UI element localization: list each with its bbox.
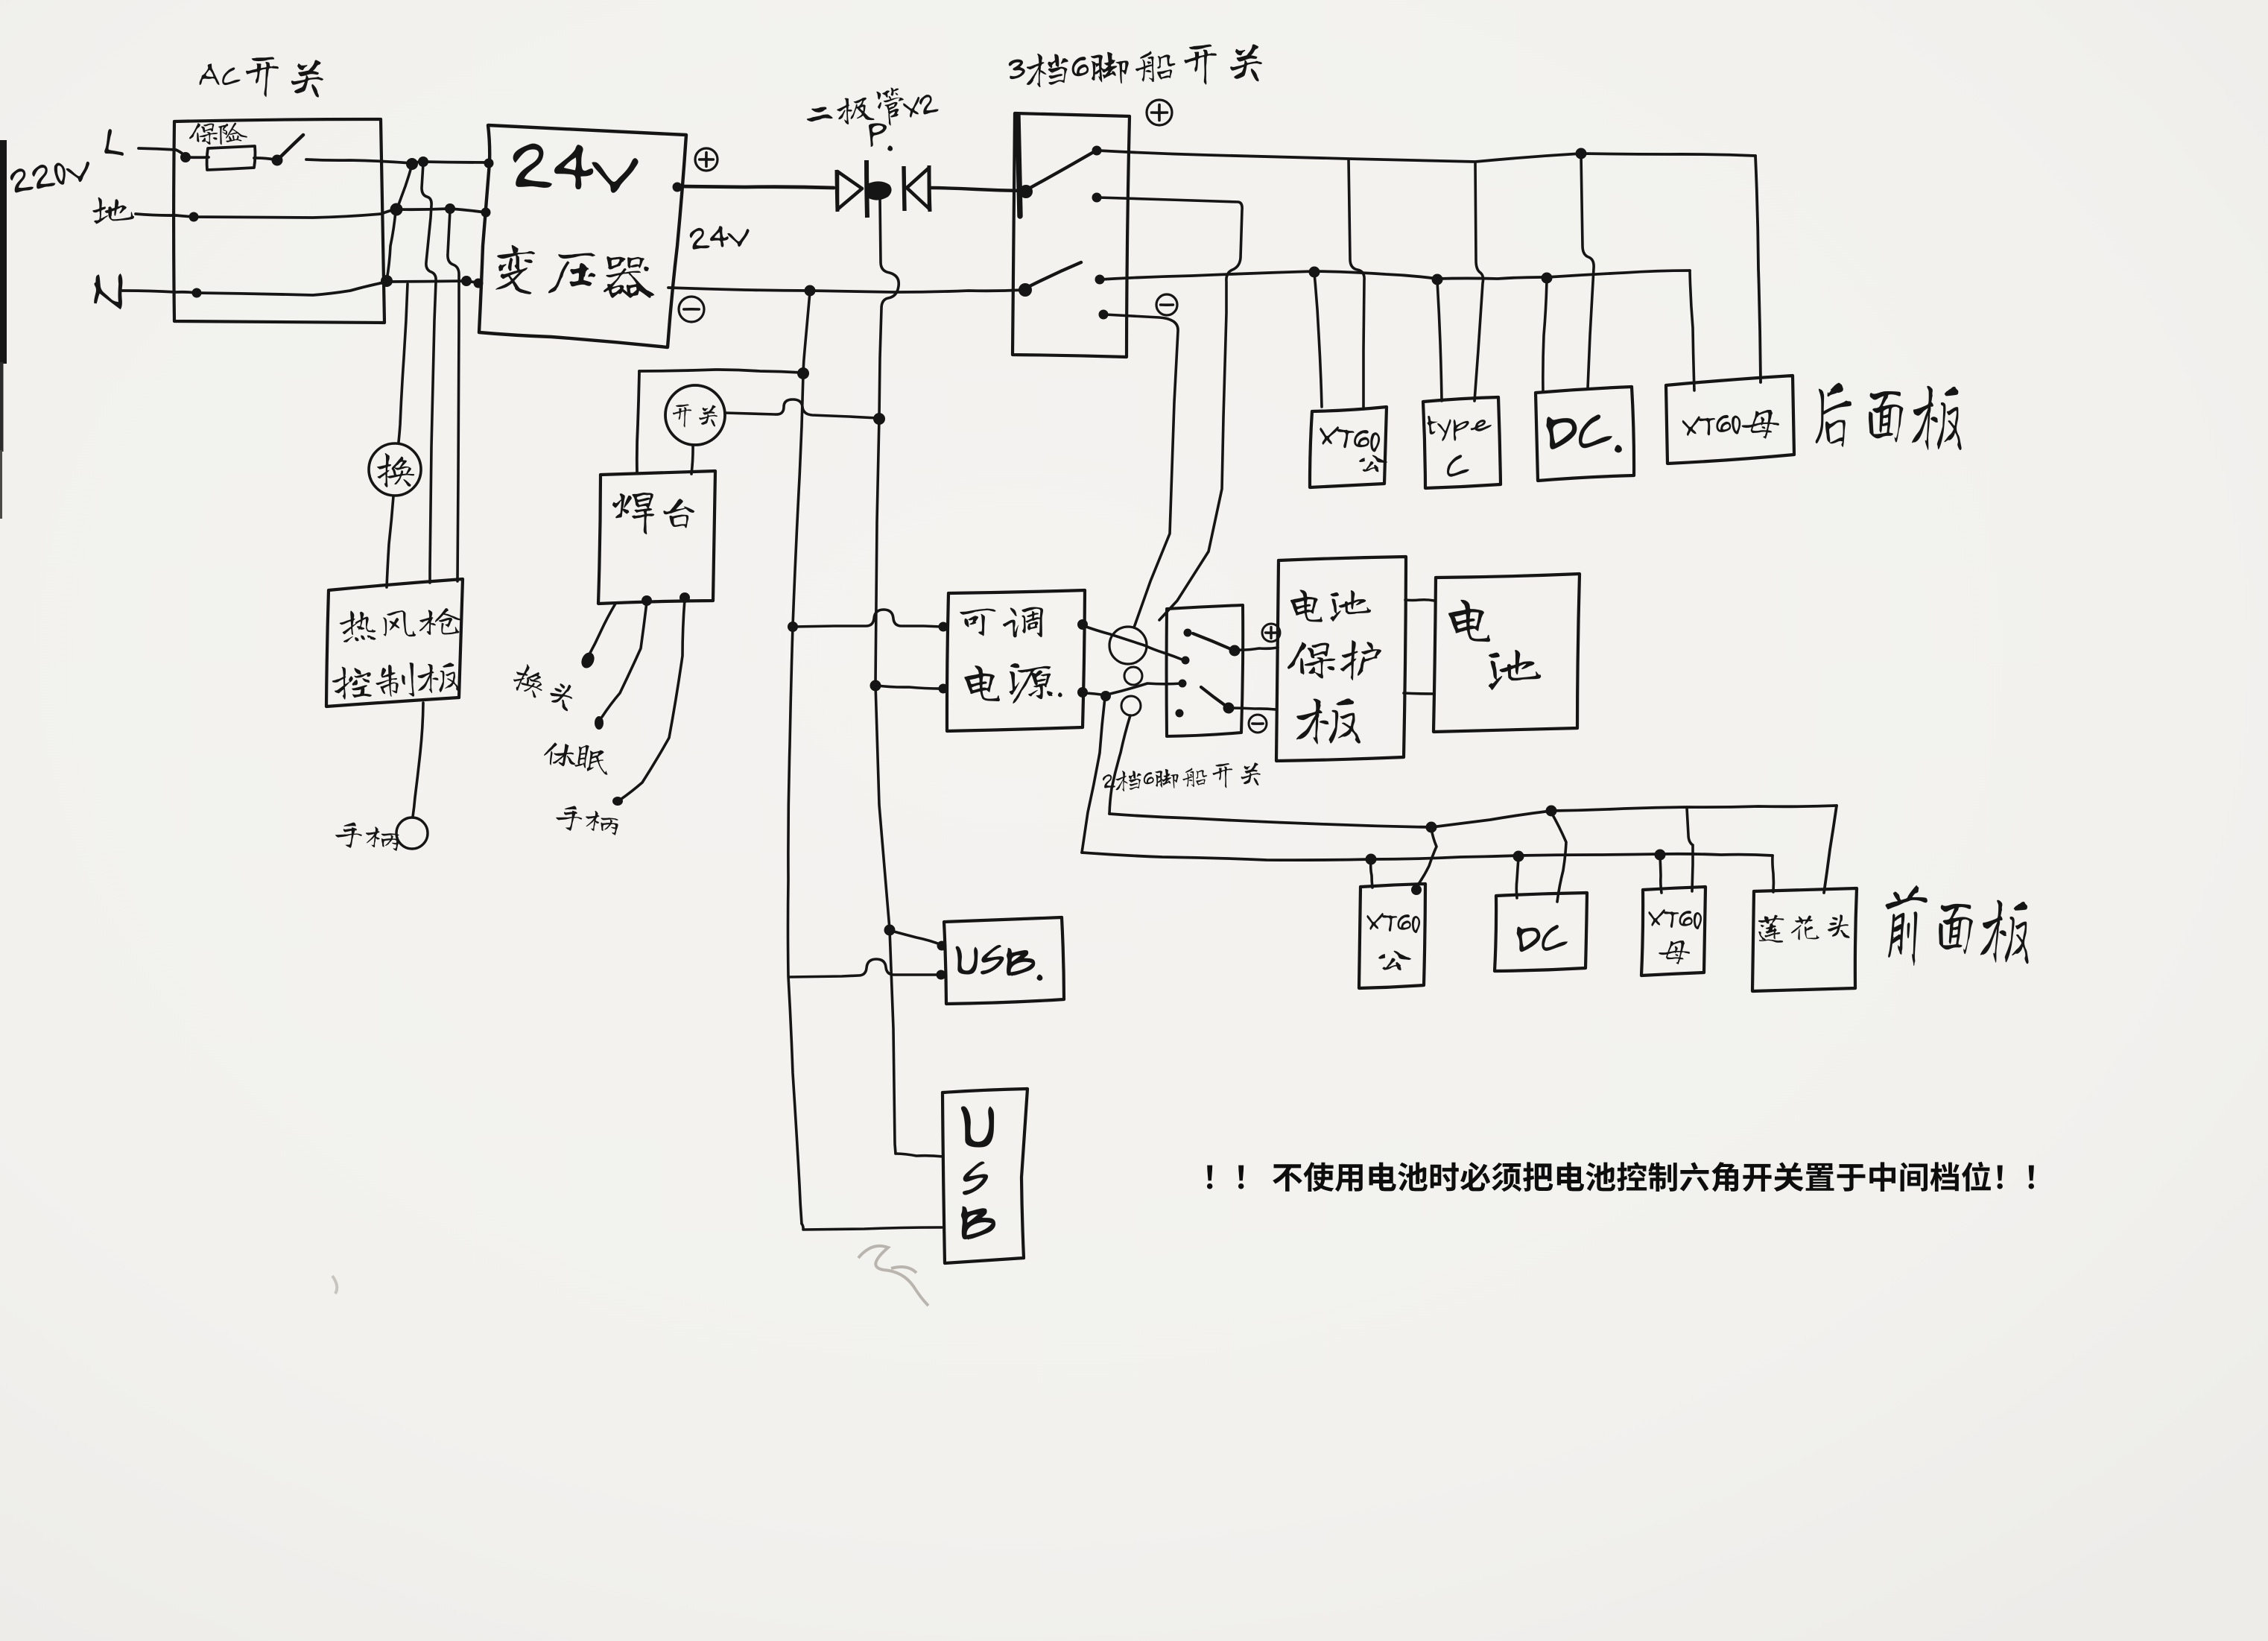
label 保护 xyxy=(1287,640,1381,680)
wire knot down to front rail A xyxy=(1109,715,1130,814)
label type xyxy=(1427,411,1492,443)
wire to tip-change connector xyxy=(589,604,615,654)
switch2 pivot dot lower xyxy=(1223,703,1235,714)
switch2 lever lower xyxy=(1201,687,1226,706)
relay circle 换 (heat-gun handle switch) xyxy=(369,443,421,496)
label C xyxy=(1447,455,1469,476)
label 板 xyxy=(1296,698,1361,744)
junction minus rail DC feed xyxy=(1542,273,1553,284)
wire branch earth junction to N junction xyxy=(387,211,396,280)
adjustable PSU box 可调电源 xyxy=(947,590,1085,731)
wire drop to rear typeC right pin (jog) xyxy=(1474,162,1483,401)
label X2 (two diodes) xyxy=(902,93,939,118)
wire rail A corner down to 莲花头 xyxy=(1824,806,1837,893)
wire transformer minus rail to rocker switch 1 xyxy=(668,288,1024,292)
connector blob 休眠 xyxy=(595,716,604,730)
junction L branch 2 xyxy=(418,156,428,167)
junction rail B at front XT60母 xyxy=(1655,850,1666,861)
wire L from switch to transformer xyxy=(306,159,489,163)
label DC. xyxy=(1546,414,1622,455)
junction rail A at front XT60公 xyxy=(1426,822,1437,833)
rear panel connector XT60母 box xyxy=(1666,376,1794,464)
junction on plus rail at DC feed xyxy=(1576,148,1587,159)
pin dot 2 xyxy=(1092,193,1102,203)
connector blob 手柄 (soldering) xyxy=(612,797,623,806)
wire rail plus to rear panel xyxy=(1098,151,1755,162)
label 池 (battery) xyxy=(1489,650,1541,690)
scanner edge artifact (black strip, left margin) xyxy=(0,140,7,519)
junction enclosure to minus vertical xyxy=(797,367,809,379)
wire minus vertical to PSU + (hop over diode-tap) xyxy=(793,610,942,627)
wire corner plus rail down to rear XT60-F xyxy=(1755,156,1761,382)
wire switch2 to protection board + xyxy=(1236,648,1278,650)
label L (line) xyxy=(104,129,127,156)
wire 地 from mains to transformer xyxy=(136,209,486,218)
label 莲花头 (RCA) xyxy=(1758,912,1849,943)
plus symbol near rocker switch 1 xyxy=(1147,100,1172,125)
label XT60母 xyxy=(1682,410,1779,442)
terminal dot L at transformer xyxy=(484,159,494,168)
pin dot front XT60公 xyxy=(1411,885,1422,895)
label DC (front) xyxy=(1516,925,1568,952)
label 24V at output xyxy=(689,224,750,250)
label B xyxy=(961,1207,995,1239)
wire circle right to diode-tap vertical (hop over minus vertical) xyxy=(725,399,878,418)
label XT60 (rear male) xyxy=(1317,424,1381,453)
handle circle 手柄 (heat gun) xyxy=(396,818,428,849)
label 后面板 (rear panel) xyxy=(1816,382,1964,452)
front panel connector XT60公 box xyxy=(1359,884,1425,988)
diode D2 (bar + reversed triangle) xyxy=(904,165,930,212)
wire rail B corner down to 莲花头 left pin xyxy=(1773,856,1774,892)
label XT60 (front) xyxy=(1366,911,1421,933)
label 220V (mains) xyxy=(9,156,92,194)
loop knot small 1 xyxy=(1124,667,1142,685)
label 控制板 xyxy=(332,660,460,701)
wire rail B stub to front DC xyxy=(1516,858,1518,898)
terminal dot 地 at transformer xyxy=(481,208,491,218)
wire corner minus rail down to rear XT60-F left pin xyxy=(1690,271,1694,391)
label 变压器 inside transformer xyxy=(495,244,657,303)
pivot dot upper xyxy=(1019,185,1033,198)
label 热风枪 xyxy=(339,605,463,642)
wire relay circle to heat-gun board xyxy=(387,496,393,587)
fuse 保险 body xyxy=(207,146,256,170)
wire diode-tap elbow into big USB top xyxy=(896,1154,943,1157)
label S xyxy=(963,1162,988,1195)
minus symbol near rocker switch 1 xyxy=(1156,294,1177,315)
wire L from mains to AC switch box xyxy=(139,148,184,155)
AC switch box xyxy=(174,119,384,323)
wire junction down to front rail B xyxy=(1082,698,1105,853)
soldering station 焊台 box xyxy=(598,471,715,604)
junction on minus rail xyxy=(805,285,816,297)
plus terminal symbol of transformer xyxy=(695,148,718,171)
wire rail A branch down to front XT60母 (jog) xyxy=(1687,808,1693,891)
label 前面板 (front panel) xyxy=(1881,883,2033,973)
junction on N wire right xyxy=(461,276,472,286)
connector blob 换头 xyxy=(579,651,597,671)
label 手柄 (soldering handle) xyxy=(554,803,620,837)
label 手柄 (heat gun handle) xyxy=(334,820,400,853)
heat-gun control board box 热风枪控制板 xyxy=(326,579,463,706)
pin dot 3 xyxy=(1095,275,1105,285)
wire fuse to switch contact xyxy=(254,158,274,159)
switch circle 开关 of soldering station xyxy=(665,385,725,445)
pivot dot lower xyxy=(1019,283,1032,297)
diode D1 (triangle + bar) xyxy=(837,160,867,218)
wire branch 地 to heat-gun board (hop over N) xyxy=(448,210,459,581)
label 24V inside transformer xyxy=(512,142,639,195)
loop knot circle (wire tangle) xyxy=(1109,627,1147,664)
wire front rail B (lower) xyxy=(1082,853,1773,860)
switch2 lever upper xyxy=(1193,633,1231,649)
label 3档6脚船开关 (rocker switch 1) xyxy=(1008,42,1263,92)
label 电池 (protection) xyxy=(1290,589,1371,622)
PSU upper-left pin dot xyxy=(939,622,948,632)
junction minus rail XT60 feed xyxy=(1309,267,1320,278)
label 母 (front) xyxy=(1659,940,1690,964)
switch2 pin dot c xyxy=(1179,680,1187,688)
junction 地 entry xyxy=(189,212,199,222)
wire rail B stub to front XT60母 xyxy=(1660,856,1662,893)
junction blob between diodes xyxy=(866,181,892,200)
junction on N wire xyxy=(381,275,393,287)
front panel connector DC box xyxy=(1495,893,1587,971)
junction N entry xyxy=(192,288,202,298)
wire protection to battery upper xyxy=(1405,600,1434,601)
faint pencil scribble under USB box xyxy=(332,1246,928,1306)
USB charge board box xyxy=(944,917,1064,1004)
pin dot soldering station output 1 xyxy=(642,595,652,606)
wire rail minus to rear panel xyxy=(1100,271,1690,279)
wire protection to battery lower xyxy=(1404,693,1434,694)
label 地 (earth) xyxy=(92,197,134,224)
wire to sleep connector xyxy=(602,602,647,717)
junction L branch xyxy=(406,158,418,170)
lever upper xyxy=(1027,153,1092,189)
label 休眠 xyxy=(542,739,611,774)
pin dot USB upper xyxy=(937,941,947,951)
wire to handle connector xyxy=(621,599,685,799)
wire rail A wavy drop to front DC pin xyxy=(1551,812,1566,902)
wire enclosure left edge xyxy=(637,371,639,472)
wire enclosure top of soldering-station switch xyxy=(639,370,802,373)
pin dot 1 xyxy=(1092,146,1102,156)
wire junction up-right to switch2 pin3 xyxy=(1107,683,1182,695)
wire diodes to rocker switch 1 xyxy=(931,188,1022,191)
junction diode-tap at PSU feed xyxy=(870,680,881,692)
label AC开关 (AC switch title) xyxy=(199,54,324,99)
rear panel connector type-C box xyxy=(1423,397,1501,488)
wire stub to rear XT60-M left pin xyxy=(1314,273,1322,407)
PSU lower-left pin dot xyxy=(939,684,948,694)
junction rail B at front XT60公 xyxy=(1366,854,1377,865)
PSU lower-right pin dot xyxy=(1077,687,1088,698)
label USB. xyxy=(954,943,1043,981)
wire diode-tap to USB box upper pin xyxy=(891,931,942,945)
switch2 pin dot d xyxy=(1176,709,1184,718)
switch2 pin dot b xyxy=(1182,657,1190,665)
wire heat-gun board to handle xyxy=(413,703,423,817)
junction rail B at front DC xyxy=(1513,851,1524,862)
switch2 pivot dot upper xyxy=(1229,645,1241,657)
wire diode-tap to PSU lower pin xyxy=(877,686,943,689)
front panel connector XT60母 box xyxy=(1641,887,1705,976)
wire stub to rear DC left pin xyxy=(1543,279,1547,392)
wire diode-tap vertical (hop over minus rail) xyxy=(875,198,899,1154)
label U xyxy=(961,1106,994,1147)
label 2档6脚船开关 (rocker switch 2) xyxy=(1102,762,1261,794)
squiggle under 器 xyxy=(612,289,650,297)
wire PSU minus to junction and up to switch2 pin xyxy=(1084,693,1106,695)
PSU upper-right pin dot xyxy=(1077,619,1088,630)
wire switch2 to protection board - xyxy=(1230,708,1276,709)
rear panel connector DC box xyxy=(1536,387,1634,481)
label 公 (front) xyxy=(1378,951,1411,970)
minus terminal symbol of transformer xyxy=(679,297,704,322)
label 换头 xyxy=(510,661,578,712)
rocker switch 1 heavy left edge stroke xyxy=(1018,116,1020,216)
label 保险 (fuse) xyxy=(189,123,247,145)
wire transformer plus to diodes xyxy=(677,186,834,188)
label 公 (rear male) xyxy=(1359,455,1387,472)
label 可调 xyxy=(960,607,1043,638)
label 电 (battery) xyxy=(1448,600,1490,642)
label 开关 in circle xyxy=(673,404,718,427)
junction rail A at front DC xyxy=(1546,806,1557,817)
label XT60 (front 2) xyxy=(1647,908,1702,929)
wire front rail A (upper) xyxy=(1109,806,1837,827)
lever lower xyxy=(1027,262,1081,288)
terminal dot N at transformer xyxy=(474,279,484,288)
rocker switch 2 box xyxy=(1167,605,1244,736)
wire circle to soldering station box xyxy=(691,445,693,474)
junction diode-tap at USB feed xyxy=(884,925,896,936)
junction on 地 wire xyxy=(390,203,403,216)
wire pin2 to battery funnel (right) xyxy=(1098,197,1242,620)
battery box 电池 xyxy=(1434,574,1580,732)
warning note text xyxy=(1207,1162,2034,1192)
wire branch to heat-gun relay (via crossing hops) xyxy=(422,163,436,583)
terminal dot at transformer plus xyxy=(673,183,682,192)
rocker switch 1 box xyxy=(1013,113,1130,357)
minus symbol at switch2 xyxy=(1249,715,1267,733)
junction L at fuse input xyxy=(180,152,191,162)
wire stub to rear typeC left pin xyxy=(1437,281,1442,401)
transformer 24V box xyxy=(479,125,686,347)
junction minus rail typeC feed xyxy=(1432,274,1443,285)
loop knot small 2 xyxy=(1121,696,1141,715)
big USB box xyxy=(943,1089,1027,1263)
wire drop to rear XT60-M right pin (jog over minus rail) xyxy=(1349,159,1364,409)
label 换 inside relay circle xyxy=(377,453,414,487)
wire PSU plus through knot to switch2 pin xyxy=(1084,626,1184,660)
wire L dot to fuse xyxy=(186,156,209,159)
label 二极管 (diodes) xyxy=(805,86,907,134)
label 焊台 xyxy=(612,493,694,534)
wire rail A wavy drop to front XT60公 pin xyxy=(1416,829,1436,888)
front panel connector 莲花头 box xyxy=(1752,888,1857,991)
wire minus vertical down the page xyxy=(788,292,811,1224)
wire N from mains to transformer xyxy=(122,281,478,295)
switch2 pin dot a xyxy=(1184,629,1192,637)
label 电源. xyxy=(964,663,1062,703)
wire branch L to earth junction xyxy=(397,165,412,209)
switch pivot dot xyxy=(272,155,283,166)
rear panel connector XT60公 box xyxy=(1310,407,1387,487)
pin dot USB lower xyxy=(937,970,946,980)
label P. under 二极管 xyxy=(869,123,893,151)
junction on minus vertical at PSU feed xyxy=(788,622,798,632)
wire pin4 to battery funnel (left) xyxy=(1105,314,1178,627)
switch lever (open contact) xyxy=(280,135,303,157)
wire rail B stub to front XT60公 xyxy=(1371,861,1372,888)
plus symbol at switch2 xyxy=(1262,624,1280,642)
wire branch N down to relay circle xyxy=(399,284,408,442)
battery protection board box 电池保护板 xyxy=(1276,557,1406,761)
pin dot 4 xyxy=(1099,310,1109,320)
label N (neutral) xyxy=(92,272,124,310)
junction on 地 wire right xyxy=(445,203,455,214)
junction diode-tap at soldering switch wire xyxy=(873,413,885,425)
wire drop to rear DC right pin (jog) xyxy=(1581,155,1594,388)
junction below PSU minus xyxy=(1100,691,1111,701)
pin dot soldering station output 2 xyxy=(680,592,690,603)
wire minus vertical to USB lower pin (hop over diode-tap) xyxy=(790,959,940,977)
wire minus vertical elbow into big USB xyxy=(802,1224,942,1230)
